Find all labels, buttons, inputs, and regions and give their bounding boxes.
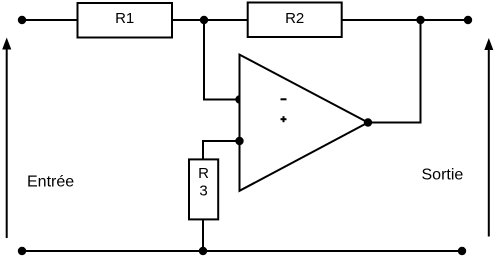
- wire feedback tap to inverting input: [204, 20, 240, 100]
- op-amp U1: [240, 55, 369, 191]
- svg-text:Entrée: Entrée: [27, 173, 74, 190]
- wire op-amp output to top rail: [368, 20, 421, 123]
- node non-inverting input: [235, 137, 243, 145]
- bottom-right terminal dot: [458, 247, 466, 255]
- svg-text:R: R: [198, 165, 209, 182]
- node op-amp output: [364, 118, 372, 126]
- bottom-left terminal dot: [18, 247, 26, 255]
- wire R2 to output junction: [342, 19, 468, 21]
- node A junction R1-R2-feedback: [200, 16, 208, 24]
- svg-text:R1: R1: [115, 10, 134, 27]
- svg-text:Sortie: Sortie: [422, 167, 464, 184]
- resistor R2: [248, 3, 342, 38]
- resistor R1: [78, 3, 173, 38]
- op-amp non-inverting pin label +: [281, 116, 287, 122]
- resistor R3: [189, 159, 218, 219]
- wire input to R1: [22, 19, 77, 21]
- svg-text:R2: R2: [285, 10, 304, 27]
- output arrow: [484, 38, 493, 237]
- bottom rail wire: [22, 250, 462, 252]
- output terminal dot: [464, 16, 472, 24]
- op-amp inverting pin label -: [281, 98, 287, 100]
- wire R3 to bottom rail: [202, 219, 204, 251]
- node R3 bottom junction: [199, 247, 207, 255]
- node B output top junction: [416, 16, 424, 24]
- wire R1 to R2: [172, 19, 248, 21]
- input arrow: [2, 38, 11, 239]
- wire non-inverting input from R3: [203, 141, 240, 160]
- node inverting input: [235, 95, 243, 103]
- svg-text:3: 3: [199, 183, 207, 200]
- input terminal dot: [18, 16, 26, 24]
